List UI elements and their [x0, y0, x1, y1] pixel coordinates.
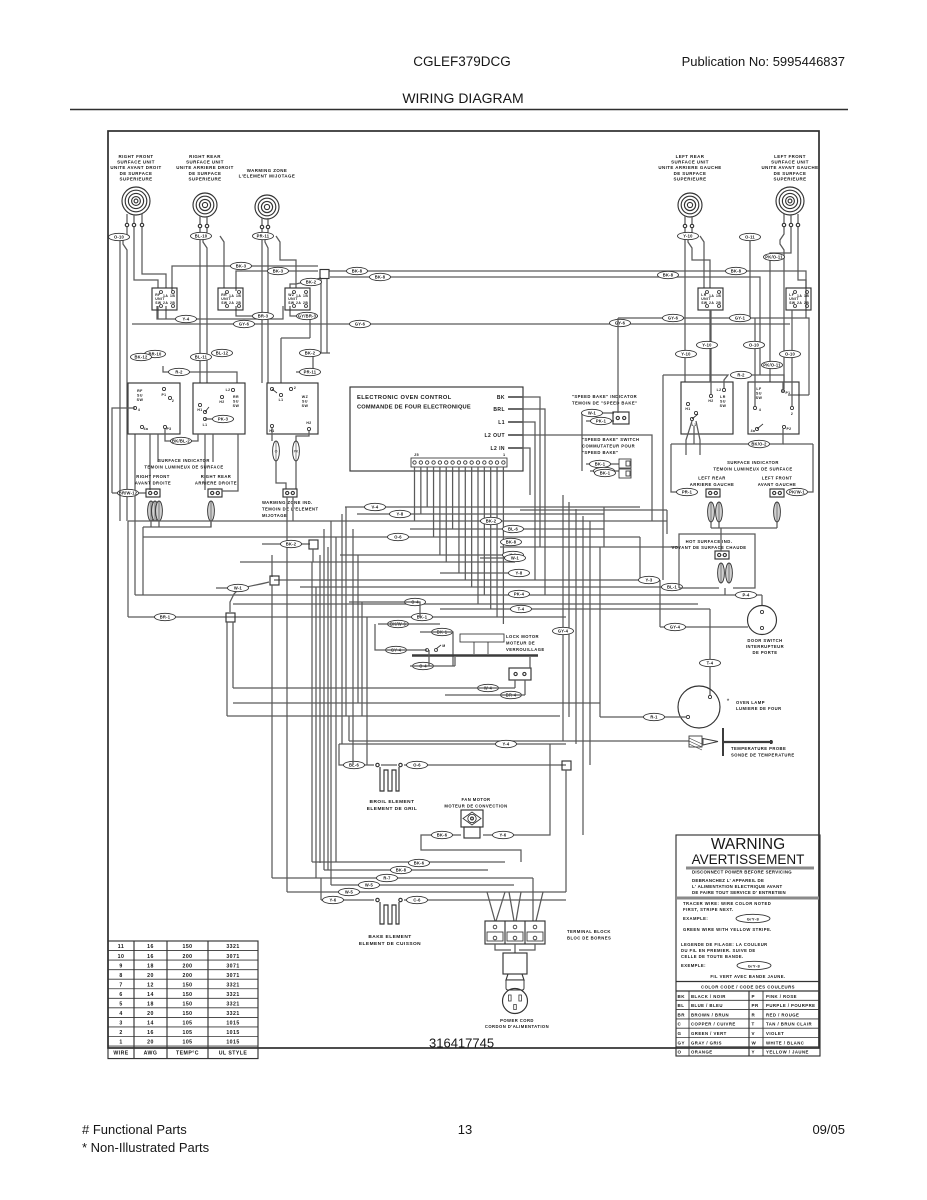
wire RR coil lead to RR unit switch [220, 236, 224, 288]
wire bus y604 [233, 603, 698, 605]
svg-text:1015: 1015 [226, 1021, 239, 1027]
svg-text:VOYANT DE SURFACE CHAUDE: VOYANT DE SURFACE CHAUDE [671, 545, 746, 550]
svg-text:MOTEUR DE: MOTEUR DE [506, 641, 535, 646]
wire R-2 left [163, 366, 237, 383]
svg-text:DE SURFACE: DE SURFACE [774, 171, 807, 176]
unit switch LR [698, 288, 723, 310]
svg-text:T-4: T-4 [518, 607, 525, 612]
svg-text:4: 4 [119, 1011, 122, 1017]
svg-text:BROIL ELEMENT: BROIL ELEMENT [370, 799, 415, 805]
wire label BR-3 [253, 312, 274, 319]
terminal box right front indicator [146, 489, 160, 497]
wire bus y558 [480, 557, 515, 559]
svg-text:SW: SW [233, 404, 240, 408]
svg-text:H1: H1 [685, 407, 690, 411]
wire top bus BK to junction [329, 271, 806, 318]
svg-text:SU: SU [137, 394, 143, 398]
wire label W-1 [228, 584, 249, 591]
svg-text:G: G [678, 1031, 682, 1036]
svg-text:W-1: W-1 [588, 411, 597, 416]
wire label Y-6 [493, 831, 514, 838]
broil element terminals [376, 763, 379, 766]
svg-text:200: 200 [182, 954, 192, 960]
svg-text:ELEMENT DE GRIL: ELEMENT DE GRIL [367, 806, 417, 812]
svg-text:UNITE AVANT GAUCHE: UNITE AVANT GAUCHE [761, 165, 818, 170]
svg-text:R-1: R-1 [650, 715, 658, 720]
broil element coil [380, 767, 399, 791]
wire label BK-8 [726, 267, 747, 274]
wire label PR-11 [300, 368, 321, 375]
EOC connector J5 strip [411, 458, 507, 467]
svg-text:DEBRANCHEZ L' APPAREIL DE: DEBRANCHEZ L' APPAREIL DE [692, 878, 764, 883]
svg-text:RR: RR [233, 395, 239, 399]
svg-text:COLOR CODE / CODE DES COULEURS: COLOR CODE / CODE DES COULEURS [701, 985, 795, 990]
svg-text:BK-2: BK-2 [286, 542, 297, 547]
svg-text:09/05: 09/05 [812, 1122, 845, 1137]
svg-text:RIGHT REAR: RIGHT REAR [201, 474, 232, 479]
wire label O-10 [744, 341, 765, 348]
wire bus y544 to junction [262, 543, 310, 545]
svg-text:DU FIL EN PREMIER. SUIVE DE: DU FIL EN PREMIER. SUIVE DE [681, 948, 756, 953]
power cord plug [506, 974, 524, 980]
svg-text:ORANGE: ORANGE [691, 1050, 713, 1055]
svg-text:PK/O-11: PK/O-11 [765, 255, 783, 260]
terminal box speed bake indicator [613, 412, 629, 424]
bake element coil [380, 902, 399, 924]
wire label BK-6 [432, 831, 453, 838]
svg-text:14: 14 [147, 992, 154, 998]
svg-text:R-2: R-2 [737, 373, 745, 378]
terminal box hot surface [715, 551, 729, 559]
svg-text:P2: P2 [786, 427, 791, 431]
svg-text:"SPEED BAKE" SWITCH: "SPEED BAKE" SWITCH [582, 437, 639, 442]
svg-text:1015: 1015 [226, 1030, 239, 1036]
coil terminals left rear [683, 224, 686, 227]
wire label BR/W-12 [118, 489, 139, 496]
svg-text:10: 10 [118, 954, 125, 960]
wire LR coil left lead down [684, 228, 686, 382]
svg-text:Publication No: 5995446837: Publication No: 5995446837 [682, 54, 845, 69]
wire label O-4 [405, 598, 426, 605]
switch box WZ SU SW [267, 383, 318, 434]
svg-text:BAKE ELEMENT: BAKE ELEMENT [368, 934, 411, 940]
wire EOC L2 IN out [523, 448, 530, 495]
svg-text:3071: 3071 [226, 963, 239, 969]
svg-text:T: T [752, 1022, 755, 1027]
svg-text:Y: Y [752, 1050, 755, 1055]
svg-text:MIJOTAGE: MIJOTAGE [262, 513, 287, 518]
svg-text:200: 200 [182, 973, 192, 979]
coil left rear surface unit [678, 193, 702, 217]
svg-text:Y-6: Y-6 [500, 833, 507, 838]
wire label GY-1 [730, 314, 751, 321]
wire label BR-1 [155, 613, 176, 620]
svg-text:BL-11: BL-11 [195, 355, 208, 360]
unit switch LF [786, 288, 811, 310]
svg-text:1A: 1A [709, 294, 714, 298]
terminal block [485, 921, 545, 944]
lock motor cam switch [426, 649, 429, 652]
svg-text:BR-3: BR-3 [258, 314, 269, 319]
wire label GY-4 [553, 627, 574, 634]
svg-text:20: 20 [147, 1011, 154, 1017]
coil warming zone element [255, 195, 279, 219]
wire L2 OUT down right [651, 458, 653, 521]
wire funnels into terminal block [487, 892, 505, 921]
svg-text:VERROUILLAGE: VERROUILLAGE [506, 647, 545, 652]
terminal box right rear indicator [208, 489, 222, 497]
svg-text:SW: SW [137, 398, 144, 402]
svg-text:PK-3: PK-3 [218, 417, 229, 422]
svg-text:2: 2 [172, 399, 174, 403]
wire label W-1 [582, 409, 603, 416]
svg-text:1B: 1B [804, 294, 809, 298]
wire junction to WZ unit switch [290, 278, 321, 288]
svg-text:DE SURFACE: DE SURFACE [189, 171, 222, 176]
svg-text:105: 105 [182, 1030, 192, 1036]
svg-text:O-10: O-10 [749, 343, 760, 348]
wire LF 2 up [791, 310, 793, 406]
wire label Y-10 [697, 341, 718, 348]
power cord strain box [503, 953, 527, 974]
wire BR-3 row [236, 306, 255, 316]
wire EOC connector fan [415, 467, 504, 624]
svg-text:O-10: O-10 [785, 352, 796, 357]
wire label GY-6 [663, 314, 684, 321]
fan motor symbol [461, 810, 483, 827]
svg-text:GY: GY [678, 1040, 685, 1045]
svg-text:2A: 2A [709, 301, 714, 305]
svg-text:M: M [442, 644, 445, 648]
svg-text:SW: SW [302, 404, 309, 408]
svg-text:GY-6: GY-6 [668, 316, 679, 321]
svg-text:H2: H2 [306, 421, 311, 425]
wire label W-5 [339, 888, 360, 895]
wire WZ SU H2 down to lamp [296, 431, 309, 441]
svg-text:C-6: C-6 [413, 898, 421, 903]
wire label O-10 [780, 350, 801, 357]
wire speed bake feed vertical [617, 318, 619, 413]
svg-text:PK/W-1: PK/W-1 [789, 490, 805, 495]
wire indicator lamp bus [143, 521, 211, 527]
svg-text:7: 7 [119, 982, 122, 988]
wire door switch feed [761, 595, 763, 606]
svg-text:PR-1: PR-1 [682, 490, 693, 495]
svg-text:3321: 3321 [226, 992, 239, 998]
svg-text:L2 OUT: L2 OUT [485, 433, 505, 439]
svg-text:LEFT FRONT: LEFT FRONT [774, 154, 806, 159]
wire RF coil mid lead to RF unit switch [134, 227, 158, 288]
svg-text:BK-8: BK-8 [375, 275, 386, 280]
wire label R-2 [169, 368, 190, 375]
svg-text:SU: SU [720, 400, 726, 404]
wire label W-4 [478, 684, 499, 691]
wire bottom bus y878 [272, 877, 533, 879]
wire label BK-8 [391, 866, 412, 873]
svg-text:1B: 1B [236, 294, 241, 298]
svg-text:# Functional Parts: # Functional Parts [82, 1122, 187, 1137]
wire left verticals from coil area [119, 241, 121, 521]
wire bus y609 [440, 608, 710, 610]
svg-text:PK/O-11: PK/O-11 [763, 363, 781, 368]
svg-text:Y-10: Y-10 [702, 343, 712, 348]
wire label O-6 [407, 761, 428, 768]
wire label BK-6 [409, 859, 430, 866]
switch box RR SU SW [193, 383, 245, 434]
wire label BK-2 [281, 540, 302, 547]
svg-text:BK-8: BK-8 [731, 269, 742, 274]
wire WZ coil left lead down [261, 229, 263, 383]
svg-text:TEMOIN LUMINEUX DE SURFACE: TEMOIN LUMINEUX DE SURFACE [713, 467, 792, 472]
svg-text:SW: SW [720, 404, 727, 408]
wire label BK-8 [501, 538, 522, 545]
svg-text:V: V [752, 1031, 755, 1036]
svg-text:BK: BK [678, 994, 686, 999]
wire label BR-4 [501, 691, 522, 698]
wire label Y-10 [676, 350, 697, 357]
svg-text:YELLOW / JAUNE: YELLOW / JAUNE [766, 1050, 809, 1055]
svg-text:SONDE DE TEMPERATURE: SONDE DE TEMPERATURE [731, 753, 795, 758]
wire label GY-6 [350, 320, 371, 327]
wire from junction bus down left [296, 353, 313, 372]
wire W-1 bend [230, 582, 269, 612]
wire EOC L2 OUT out [523, 435, 652, 458]
svg-text:EXEMPLE:: EXEMPLE: [681, 963, 706, 968]
wire label PR-1 [677, 488, 698, 495]
wire R-2 left vertical [662, 375, 664, 580]
svg-text:COPPER / CUIVRE: COPPER / CUIVRE [691, 1022, 736, 1027]
svg-text:3321: 3321 [226, 1002, 239, 1008]
svg-text:PK-4: PK-4 [514, 592, 525, 597]
svg-text:LEFT REAR: LEFT REAR [676, 154, 705, 159]
wire BR/W-12 to RF indicator [112, 492, 146, 494]
svg-text:TEMPERATURE PROBE: TEMPERATURE PROBE [731, 746, 786, 751]
svg-text:BK-2: BK-2 [305, 351, 316, 356]
wire central verticals [535, 473, 545, 595]
svg-text:PURPLE / POURPRE: PURPLE / POURPRE [766, 1003, 815, 1008]
svg-text:P: P [752, 994, 755, 999]
svg-text:4: 4 [138, 408, 140, 412]
svg-text:1: 1 [119, 1040, 122, 1046]
svg-text:SW: SW [756, 396, 763, 400]
svg-text:1A: 1A [229, 294, 234, 298]
svg-text:WHITE / BLANC: WHITE / BLANC [766, 1040, 804, 1045]
svg-text:MOTEUR DE CONVECTION: MOTEUR DE CONVECTION [444, 804, 507, 809]
svg-text:Y-10: Y-10 [681, 352, 691, 357]
svg-text:Y-6: Y-6 [330, 898, 337, 903]
svg-text:SURFACE UNIT: SURFACE UNIT [117, 160, 155, 165]
wire sq1 feed from above [271, 555, 273, 577]
svg-text:OVEN LAMP: OVEN LAMP [736, 700, 765, 705]
svg-text:H2: H2 [708, 399, 713, 403]
wire lamps RR down [210, 521, 212, 527]
wire speed bake ind leads [582, 412, 614, 414]
svg-text:COMMUTATEUR POUR: COMMUTATEUR POUR [582, 444, 635, 449]
svg-text:BK-1: BK-1 [595, 462, 606, 467]
svg-text:GREEN / VERT: GREEN / VERT [691, 1031, 727, 1036]
wire gray bus right upper [618, 318, 809, 395]
svg-text:O-6: O-6 [413, 763, 421, 768]
wire label BK-8 [658, 271, 679, 278]
wire junction 274 down [271, 585, 273, 878]
svg-text:P1: P1 [161, 393, 166, 397]
svg-text:BK-2: BK-2 [486, 519, 497, 524]
wire vertical band left-center [312, 507, 367, 885]
svg-text:CELLE DE TOUTE BANDE.: CELLE DE TOUTE BANDE. [681, 954, 744, 959]
svg-text:PR-11: PR-11 [257, 234, 270, 239]
svg-text:BK: BK [497, 395, 505, 401]
coil terminals warming zone [260, 225, 263, 228]
svg-text:SURFACE UNIT: SURFACE UNIT [186, 160, 224, 165]
svg-text:P1: P1 [785, 391, 790, 395]
svg-text:LOCK MOTOR: LOCK MOTOR [506, 634, 539, 639]
wire bus y595 [135, 594, 762, 596]
indicator lamps right front [148, 501, 155, 521]
wire indicator outline arms [671, 443, 813, 445]
svg-text:POWER CORD: POWER CORD [500, 1018, 534, 1023]
wire label BK-1 [432, 628, 453, 635]
wire label PR-11 [253, 232, 274, 239]
wire lamps RF down [151, 521, 159, 527]
wire LR L1 down to BK/O-2 [693, 426, 695, 444]
wire bus y529 [410, 528, 604, 530]
svg-text:BL-12: BL-12 [216, 351, 229, 356]
svg-text:BK-8: BK-8 [396, 868, 407, 873]
wire top bus BK lower [330, 277, 760, 375]
svg-text:2A: 2A [163, 301, 168, 305]
wire left border vertical x128 [127, 521, 129, 617]
svg-text:BK-6: BK-6 [437, 833, 448, 838]
wire label BK-12 [131, 353, 152, 360]
wire label O-4 [413, 662, 434, 669]
svg-text:WIRING DIAGRAM: WIRING DIAGRAM [402, 90, 523, 106]
svg-text:20: 20 [147, 973, 154, 979]
svg-text:INTERRUPTEUR: INTERRUPTEUR [746, 644, 784, 649]
svg-text:TRACER WIRE: WIRE COLOR NOTED: TRACER WIRE: WIRE COLOR NOTED [683, 901, 771, 906]
svg-text:BL-6: BL-6 [349, 763, 360, 768]
wire LR L1 arm down fan [686, 421, 692, 455]
svg-text:TEMOIN DE L'ELEMENT: TEMOIN DE L'ELEMENT [262, 507, 319, 512]
terminal box left rear indicator [706, 489, 720, 497]
svg-text:13: 13 [458, 1122, 472, 1137]
svg-text:4a: 4a [144, 427, 149, 431]
wire y716 bottom link [227, 715, 560, 717]
svg-text:BLACK / NOIR: BLACK / NOIR [691, 994, 726, 999]
wire label P-4 [736, 591, 757, 598]
svg-text:O: O [678, 1050, 682, 1055]
svg-text:RED / ROUGE: RED / ROUGE [766, 1012, 799, 1017]
terminal speed bake switch A [619, 459, 631, 468]
wire label BK-3 [268, 267, 289, 274]
svg-text:EXAMPLE:: EXAMPLE: [683, 916, 708, 921]
svg-text:L1: L1 [279, 398, 284, 402]
wire label BK-1 [412, 613, 433, 620]
wire label GY-6 [610, 319, 631, 326]
svg-text:VIOLET: VIOLET [766, 1031, 784, 1036]
svg-text:ARRIERE DROITE: ARRIERE DROITE [195, 481, 237, 486]
wire bottom bus y885 [331, 884, 514, 886]
wire left x135 down [134, 521, 136, 595]
wire RF SU P3 to BK/BL-2 [165, 429, 198, 441]
coil terminals right front [125, 223, 128, 226]
svg-text:DISCONNECT POWER BEFORE SERVIC: DISCONNECT POWER BEFORE SERVICING [692, 870, 792, 875]
svg-text:BK/BL-2: BK/BL-2 [172, 439, 190, 444]
wire bus y703 [233, 702, 600, 704]
svg-text:SU: SU [756, 392, 762, 396]
svg-text:2: 2 [294, 386, 296, 390]
wire door switch bottom [660, 626, 748, 628]
wire speed bake switch leads [586, 463, 619, 465]
wire fan motor right [483, 744, 550, 835]
wire BK/O-2 row [694, 429, 783, 444]
unit switch WZ [285, 288, 310, 310]
svg-text:LEGENDE DE FILAGE: LA COULEUR: LEGENDE DE FILAGE: LA COULEUR [681, 942, 768, 947]
wire x600 down to oven lamp wire [599, 547, 601, 717]
svg-text:FIRST, STRIPE NEXT.: FIRST, STRIPE NEXT. [683, 907, 734, 912]
svg-text:GY-6: GY-6 [239, 322, 250, 327]
wire label BK/O-2 [749, 440, 770, 447]
svg-text:T-4: T-4 [707, 661, 714, 666]
wire right bus to LF P1 [788, 394, 809, 396]
svg-text:DE FAIRE TOUT SERVICE D' ENTRE: DE FAIRE TOUT SERVICE D' ENTRETIEN [692, 890, 786, 895]
svg-text:SURFACE INDICATOR: SURFACE INDICATOR [158, 458, 210, 463]
wire label W-5 [359, 881, 380, 888]
svg-text:BRL: BRL [493, 407, 505, 413]
wire oven lamp top feed [709, 609, 711, 696]
wire label R-7 [377, 874, 398, 881]
wire bus y547 [500, 546, 680, 548]
wire label BK-1 [590, 460, 611, 467]
svg-text:BLOC DE BORNES: BLOC DE BORNES [567, 936, 611, 941]
wire bottom bus y862 [312, 861, 505, 863]
svg-text:3321: 3321 [226, 982, 239, 988]
wire RR SU to indicator outline [222, 434, 238, 491]
junction square x230 [226, 613, 235, 622]
svg-text:Y-10: Y-10 [683, 234, 693, 239]
wire gauge table [108, 941, 258, 1059]
svg-text:LEFT FRONT: LEFT FRONT [762, 476, 793, 481]
svg-text:WARNING: WARNING [711, 836, 785, 853]
wire WZ coil to WZ unit switch [276, 236, 296, 288]
svg-text:UNITE ARRIERE GAUCHE: UNITE ARRIERE GAUCHE [658, 165, 721, 170]
wire label Y-6 [323, 896, 344, 903]
wire label BR-10 [145, 350, 166, 357]
svg-text:GY-1: GY-1 [735, 316, 746, 321]
svg-text:6: 6 [119, 992, 122, 998]
wire label PK/O-11 [762, 361, 783, 368]
svg-text:3321: 3321 [226, 1011, 239, 1017]
terminal box left front indicator [770, 489, 784, 497]
svg-text:Y-3: Y-3 [646, 578, 653, 583]
svg-text:GRAY / GRIS: GRAY / GRIS [691, 1040, 722, 1045]
wire EOC BK out [523, 397, 540, 473]
wire LR SU box feeds [709, 310, 711, 382]
wire bottom bus y870 [324, 869, 488, 871]
svg-text:316417745: 316417745 [429, 1036, 494, 1051]
svg-text:150: 150 [182, 944, 192, 950]
unit switch RR [218, 288, 243, 310]
svg-text:3071: 3071 [226, 973, 239, 979]
wire label BK-3 [231, 262, 252, 269]
svg-text:GY-4: GY-4 [558, 629, 569, 634]
wire label PK/O-11 [764, 253, 785, 260]
svg-text:R: R [752, 1012, 756, 1017]
wire x313 junction down [312, 549, 314, 562]
wire WZ SU H1 down to lamp [271, 428, 273, 441]
temperature probe body [689, 736, 702, 747]
svg-text:SUPERIEURE: SUPERIEURE [188, 176, 221, 181]
wire LR coil lead down [700, 236, 704, 288]
